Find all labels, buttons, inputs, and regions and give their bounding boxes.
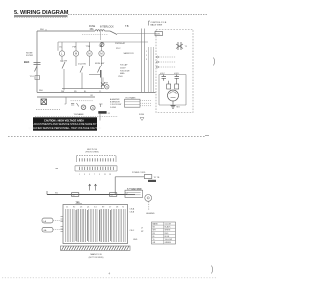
svg-text:R9: R9 (102, 207, 104, 209)
svg-text:T2: T2 (122, 207, 124, 209)
svg-text:COLOR: COLOR (165, 224, 172, 226)
svg-text:M: M (75, 52, 78, 56)
svg-text:INTERLOCK: INTERLOCK (100, 26, 114, 29)
svg-text:IC1: IC1 (94, 207, 97, 209)
svg-text:7: 7 (94, 174, 95, 176)
svg-text:C1: C1 (66, 207, 68, 209)
left component L2 (42, 227, 63, 232)
svg-text:BACK VIEW: BACK VIEW (151, 24, 163, 27)
scan artifact: right edge marks (205, 58, 215, 274)
svg-text:1: 1 (146, 51, 147, 53)
thermal fuse symbol on left branch (101, 78, 105, 87)
left edge connector pads (61, 217, 64, 232)
svg-text:3: 3 (146, 59, 147, 61)
svg-text:H.V.DIODE: H.V.DIODE (120, 70, 130, 72)
magnetron filament terminals (167, 81, 179, 89)
svg-text:3: 3 (84, 174, 85, 176)
svg-text:CN-D: CN-D (118, 76, 123, 78)
svg-text:BL: BL (153, 236, 155, 238)
node label T.B.NAME (74, 113, 85, 116)
separator dashed rule (8, 136, 205, 138)
svg-text:15A: 15A (90, 28, 95, 31)
svg-text:GREEN: GREEN (165, 242, 172, 244)
svg-text:T1: T1 (185, 46, 188, 48)
main PCB top edge labels (66, 207, 124, 209)
svg-text:CN-B: CN-B (130, 211, 135, 213)
svg-text:2nd.SW: 2nd.SW (78, 64, 87, 66)
svg-text:VARISTOR: VARISTOR (124, 52, 135, 55)
svg-text:YL: YL (153, 239, 155, 241)
HV capacitor C1 (160, 73, 166, 81)
svg-text:LA: LA (44, 220, 47, 223)
timer motor TM (99, 42, 105, 66)
main PCB caption (89, 253, 104, 259)
HV diode D1 (174, 73, 180, 81)
connector block CN (dark) (98, 111, 110, 115)
svg-text:H.V.C: H.V.C (160, 73, 166, 75)
svg-text:PW.RELAY: PW.RELAY (115, 42, 126, 45)
svg-text:QUALIFIED SERVICE PERSONNEL. H: QUALIFIED SERVICE PERSONNEL. HIGH VOLTAG… (29, 127, 102, 130)
label TR1 (76, 202, 83, 204)
svg-text:CN-C: CN-C (130, 230, 135, 232)
ground symbol (171, 101, 181, 109)
svg-text:FM: FM (73, 47, 76, 49)
svg-text:1: 1 (79, 174, 80, 176)
motor M2 (lower) (91, 104, 103, 110)
svg-text:CN1: CN1 (156, 34, 161, 36)
svg-text:FUSE: FUSE (139, 114, 145, 116)
thermostat TH under bus (65, 97, 94, 106)
svg-text:W1: W1 (55, 192, 58, 194)
svg-text:A (FRONT VIEW): A (FRONT VIEW) (127, 187, 142, 190)
svg-text:5: 5 (89, 174, 90, 176)
wire: inner branch line (58, 42, 148, 51)
svg-text:BLK: BLK (24, 60, 29, 64)
turntable motor lower TTM2 (104, 83, 110, 90)
svg-text:C7: C7 (109, 207, 111, 209)
svg-text:TTM: TTM (86, 46, 91, 48)
wire: left supply rail (36, 31, 38, 92)
oven lamp OL (59, 42, 65, 62)
node label WH at corner (40, 29, 46, 31)
svg-text:F1: F1 (108, 113, 110, 115)
HV cap label stack (118, 64, 130, 79)
svg-text:RY-2: RY-2 (116, 48, 121, 50)
svg-text:LEGEND: LEGEND (146, 213, 155, 215)
svg-text:M: M (100, 52, 103, 56)
connector A (front view) (125, 187, 152, 210)
switch: 1st interlock switch (60, 60, 68, 91)
chassis harness bar (47, 191, 135, 197)
svg-text:A:HEATER: A:HEATER (110, 98, 120, 101)
svg-text:D8: D8 (116, 207, 118, 209)
legend table (152, 222, 176, 244)
svg-text:GA: GA (44, 229, 48, 232)
relay coil RY1 (dark bar) (89, 70, 102, 89)
svg-text:YL: YL (99, 91, 101, 93)
bottom page edge dotted (2, 277, 216, 279)
wire: top line with fuse (37, 30, 110, 35)
svg-text:CAUTION : HIGH VOLTAGE AREA: CAUTION : HIGH VOLTAGE AREA (44, 120, 84, 123)
svg-text:1st.SW: 1st.SW (60, 60, 68, 63)
right edge labels of PCB (130, 208, 138, 242)
key PCB caption (85, 149, 98, 154)
svg-text:Q1: Q1 (87, 207, 89, 209)
svg-text:9: 9 (99, 174, 100, 176)
svg-text:TCO: TCO (30, 76, 35, 78)
svg-text:M: M (88, 52, 91, 56)
switch: monitor switch (95, 63, 105, 73)
small box NOTE inside panel (155, 32, 163, 36)
svg-text:YELLOW: YELLOW (165, 239, 173, 241)
noise filter NF on left rail (24, 53, 43, 93)
svg-text:MON.SW: MON.SW (95, 63, 105, 65)
svg-text:TO T.B: TO T.B (154, 177, 161, 179)
control panel dashed enclosure (156, 30, 193, 113)
svg-text:(BOTTOM VIEW): (BOTTOM VIEW) (89, 257, 104, 259)
svg-text:T.B.NAME: T.B.NAME (74, 113, 85, 116)
svg-text:WH: WH (40, 29, 44, 31)
svg-text:R2: R2 (73, 207, 75, 209)
warning box (inverted text) (29, 117, 102, 130)
svg-text:NT: NT (141, 231, 144, 233)
svg-text:POWER CORD: POWER CORD (132, 172, 146, 174)
svg-text:MAIN P.C.B: MAIN P.C.B (91, 253, 103, 256)
svg-text:WH: WH (39, 90, 43, 92)
svg-text:2: 2 (146, 55, 147, 57)
note text block (110, 98, 121, 109)
PCB stripe dark accents (76, 210, 111, 241)
wire: control cable pair to PCB (142, 29, 154, 93)
power cord wire assembly (115, 172, 160, 194)
stray mark (56, 167, 59, 169)
svg-text:BL: BL (84, 91, 86, 93)
fan motor FM (73, 42, 79, 66)
svg-text:CN-A: CN-A (130, 208, 135, 211)
svg-text:4: 4 (109, 272, 111, 276)
power transformer T1 symbol (176, 42, 188, 50)
switch: primary interlock on top line (100, 25, 156, 35)
pin numbers row (79, 174, 111, 176)
svg-text:11: 11 (104, 174, 106, 176)
terminal block TB2 (125, 96, 152, 120)
svg-text:LT: LT (141, 228, 144, 230)
connector strip CN-A (77, 156, 117, 162)
svg-text:MG: MG (177, 107, 181, 109)
svg-text:BLUE: BLUE (165, 236, 170, 238)
motor M1 (lower) (81, 105, 86, 110)
svg-text:BLACK: BLACK (165, 226, 172, 229)
title: 5. WIRING DIAGRAM (14, 10, 69, 18)
legend caption (146, 213, 155, 215)
bottom hatched bar (61, 246, 131, 250)
connector strip CN-B (75, 166, 117, 171)
left component L1 (42, 218, 63, 223)
fuse F1 label (89, 26, 96, 31)
ribbon arrows to main PCB (89, 184, 97, 191)
svg-text:D3: D3 (80, 207, 82, 209)
svg-text:5. WIRING DIAGRAM: 5. WIRING DIAGRAM (14, 10, 69, 16)
table side label (141, 228, 144, 234)
magnetron MG (168, 90, 179, 101)
svg-text:H.V.TRANS: H.V.TRANS (126, 96, 137, 99)
page rule (faint dotted line across top) (68, 13, 208, 15)
svg-text:GND: GND (133, 239, 138, 241)
PCB trace stripes (66, 209, 126, 242)
svg-text:FILTER: FILTER (26, 55, 34, 57)
terminal inputs to panel (157, 56, 177, 68)
svg-text:H.V.D: H.V.D (174, 73, 180, 75)
HV section enclosure (159, 75, 186, 106)
bus: main lower bus lines (37, 89, 156, 98)
svg-text:L: L (61, 52, 63, 56)
main PCB outline (63, 205, 128, 244)
svg-text:WHITE: WHITE (165, 230, 172, 232)
wire: dashed return paths (35, 99, 118, 121)
svg-text:MARK: MARK (153, 223, 159, 226)
svg-text:MAG.: MAG. (120, 72, 125, 75)
switch: 2nd interlock switch (78, 64, 87, 89)
svg-text:2100V: 2100V (120, 67, 126, 69)
svg-text:ADJUSTMENTS AND SERVICE SHOULD: ADJUSTMENTS AND SERVICE SHOULD BE MADE B… (33, 123, 96, 126)
svg-text:H.V.CAP: H.V.CAP (120, 64, 128, 67)
control panel caption (149, 21, 167, 27)
svg-text:T.B: T.B (125, 25, 129, 28)
svg-text:13: 13 (109, 174, 111, 176)
svg-text:(FRONT VIEW): (FRONT VIEW) (85, 152, 98, 154)
buzzer BZ (100, 31, 134, 55)
turntable motor TTM (86, 42, 93, 66)
svg-text:D:GND: D:GND (110, 107, 117, 109)
page number (109, 272, 111, 276)
